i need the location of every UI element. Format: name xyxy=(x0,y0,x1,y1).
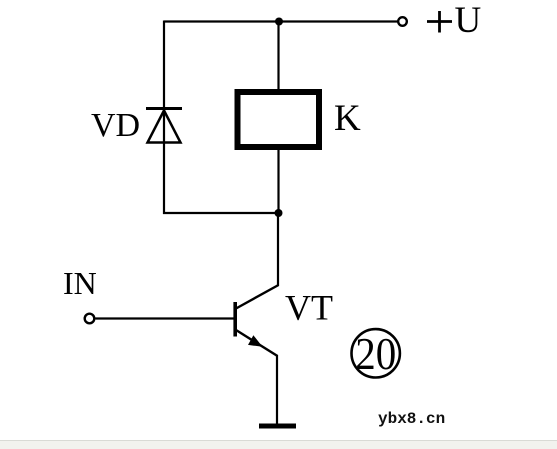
svg-text:VT: VT xyxy=(285,288,333,328)
svg-text:K: K xyxy=(334,98,361,139)
emitter diagonal xyxy=(236,330,278,356)
wire base horizontal from IN xyxy=(96,317,236,319)
wire left vertical (through diode VD) xyxy=(163,21,165,215)
collector diagonal xyxy=(236,285,279,309)
svg-text:20: 20 xyxy=(355,328,396,379)
ground xyxy=(259,424,296,429)
wire relay top xyxy=(277,22,279,93)
svg-text:IN: IN xyxy=(63,265,97,301)
terminal +U (open circle) xyxy=(398,17,407,26)
relay K (coil box) xyxy=(238,92,320,147)
svg-text:U: U xyxy=(455,0,482,41)
terminal IN (open circle) xyxy=(85,314,95,324)
emitter arrowhead xyxy=(248,335,263,347)
circled number 20 xyxy=(352,328,400,379)
node junction at top wire xyxy=(275,18,283,26)
wire top horizontal to +U terminal xyxy=(164,20,398,22)
base bar xyxy=(233,302,237,337)
label +U plus sign xyxy=(427,20,452,23)
wire collector vertical xyxy=(277,213,279,286)
node junction at collector wire xyxy=(275,209,283,217)
transistor VT xyxy=(235,285,278,356)
watermark ybx8.cn xyxy=(378,410,445,428)
wire lower horizontal (diode to collector node) xyxy=(163,212,279,214)
wire emitter vertical to ground xyxy=(276,355,278,426)
diode VD xyxy=(146,109,182,143)
wire relay bottom xyxy=(277,147,279,213)
svg-text:VD: VD xyxy=(91,107,140,144)
